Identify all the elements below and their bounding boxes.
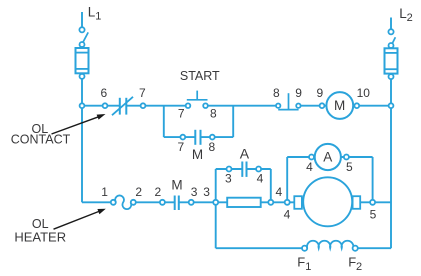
node F2 terminal: [353, 246, 358, 251]
disconnect switch right terminal top: [388, 29, 393, 34]
svg-text:3: 3: [225, 172, 232, 186]
wire ammeter branch riser: [286, 157, 288, 202]
contact M auxiliary (NO): [195, 130, 200, 145]
wire brush to node 5: [360, 201, 391, 203]
wire field branch bottom left: [216, 247, 302, 249]
svg-text:8: 8: [273, 86, 280, 100]
svg-text:8: 8: [208, 140, 215, 154]
armature brush right: [353, 196, 361, 209]
svg-text:1: 1: [101, 185, 108, 199]
svg-text:9: 9: [295, 86, 302, 100]
wire field branch bottom right: [358, 247, 391, 249]
node 2: [131, 200, 136, 205]
svg-text:3: 3: [191, 185, 198, 199]
wire ammeter branch top: [287, 156, 372, 158]
svg-text:A: A: [323, 150, 332, 165]
svg-text:8: 8: [210, 106, 217, 120]
node 10: [354, 103, 359, 108]
node 4 ammeter left terminal: [309, 155, 314, 160]
wire L2 lead: [390, 18, 392, 30]
pushbutton START (NO): [186, 91, 208, 108]
svg-text:A: A: [240, 146, 250, 162]
fuse F left body: [76, 48, 89, 73]
fuse F right bottom terminal: [389, 74, 394, 79]
wire row1 after start: [206, 105, 279, 107]
node 1: [111, 200, 116, 205]
svg-text:2: 2: [135, 185, 142, 199]
svg-text:4: 4: [275, 185, 282, 199]
node 7: [141, 103, 146, 108]
svg-text:4: 4: [284, 207, 291, 221]
motor armature: [303, 177, 352, 226]
node 4 A contact right: [256, 167, 261, 172]
node 2b: [160, 200, 165, 205]
svg-text:START: START: [180, 69, 220, 83]
wire ammeter branch drop: [372, 157, 374, 202]
svg-text:4: 4: [306, 160, 313, 174]
svg-text:7: 7: [139, 86, 146, 100]
armature brush left: [294, 196, 302, 209]
disconnect switch left terminal bottom: [80, 42, 85, 47]
fuse F right body: [385, 48, 398, 73]
svg-text:1: 1: [305, 261, 311, 273]
svg-text:5: 5: [370, 207, 377, 221]
node 3 A contact left: [227, 167, 232, 172]
ammeter A: [315, 144, 341, 170]
svg-text:10: 10: [357, 86, 371, 100]
wire row2 right segment: [179, 201, 294, 203]
node 5 ammeter right terminal: [344, 155, 349, 160]
disconnect switch right blade: [391, 37, 395, 45]
node 6: [103, 103, 108, 108]
disconnect switch right terminal bottom: [389, 43, 394, 48]
svg-text:3: 3: [203, 185, 210, 199]
svg-text:M: M: [334, 98, 345, 113]
svg-text:7: 7: [178, 140, 185, 154]
wire tee down left of start: [163, 106, 165, 137]
field coil F1-F2 (shunt field inductor): [307, 241, 353, 248]
node 4 armature tap: [285, 200, 290, 205]
wire row1 middle segment: [126, 105, 188, 107]
svg-text:HEATER: HEATER: [14, 229, 66, 244]
wire A contact branch top right: [247, 168, 271, 170]
pushbutton STOP (NC): [276, 93, 301, 109]
wire tee down right of start: [232, 106, 234, 137]
node junction 4 resistor right: [268, 200, 273, 205]
disconnect switch left terminal top: [79, 27, 84, 32]
wire A contact branch riser: [215, 169, 217, 202]
svg-text:5: 5: [346, 160, 353, 174]
node 5 armature right: [370, 200, 375, 205]
node junction right rail row1: [389, 103, 394, 108]
contact M main (NO): [175, 196, 179, 211]
contact A accelerating (NO): [242, 162, 246, 177]
wire left rail: [81, 79, 83, 202]
svg-text:7: 7: [178, 106, 185, 120]
wire field branch drop: [215, 202, 217, 248]
svg-text:4: 4: [257, 172, 264, 186]
node F1 terminal: [302, 246, 307, 251]
svg-text:2: 2: [407, 12, 413, 24]
wire A contact branch drop: [270, 169, 272, 202]
svg-text:6: 6: [101, 86, 108, 100]
wire M aux contact left: [164, 136, 196, 138]
coil M (motor starter coil): [326, 92, 353, 119]
node M aux right terminal 8: [210, 135, 215, 140]
node junction left rail row1: [80, 103, 85, 108]
node M aux left terminal 7: [180, 135, 185, 140]
svg-text:2: 2: [356, 261, 362, 273]
wire row1 right segment: [298, 105, 391, 107]
node junction 3 field tap: [213, 200, 218, 205]
svg-text:M: M: [192, 147, 203, 162]
OL heater element: [115, 195, 131, 209]
fuse F left bottom terminal: [80, 74, 85, 79]
node 3: [189, 200, 194, 205]
disconnect switch left blade: [83, 32, 88, 42]
svg-text:2: 2: [154, 185, 161, 199]
arrow OL contact pointer: [52, 114, 106, 134]
node 9 M coil left terminal: [320, 103, 325, 108]
wire right rail: [390, 79, 392, 249]
svg-text:F: F: [297, 255, 305, 270]
OL contact (NC overload contact): [112, 97, 133, 115]
wire row2 middle segment: [136, 201, 175, 203]
wire row2 left segment: [82, 201, 111, 203]
wire A contact branch top left: [216, 168, 243, 170]
svg-text:M: M: [171, 178, 182, 193]
svg-text:9: 9: [317, 86, 324, 100]
resistor (starting resistor): [227, 198, 261, 207]
wire M aux contact right: [201, 136, 234, 138]
svg-text:CONTACT: CONTACT: [11, 133, 71, 147]
arrow OL heater pointer: [54, 209, 106, 230]
wire row1 left segment: [82, 105, 120, 107]
wire L1 lead: [81, 12, 83, 27]
svg-text:1: 1: [95, 10, 101, 22]
